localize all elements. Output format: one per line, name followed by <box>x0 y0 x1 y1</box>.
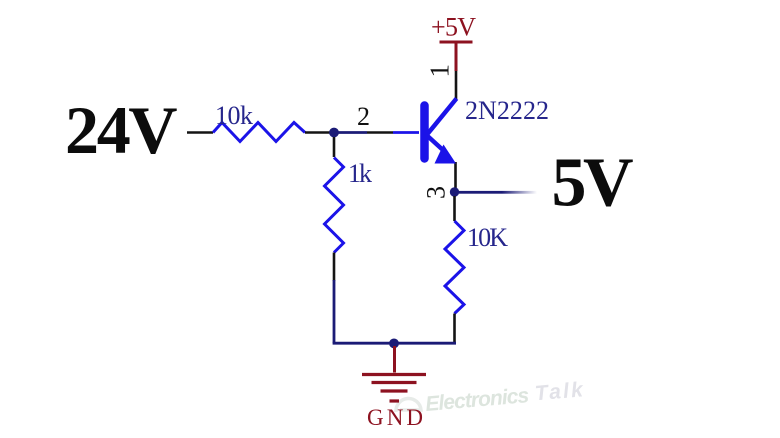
wire base segment (black) <box>367 131 393 134</box>
svg-text:Electronics: Electronics <box>424 384 530 416</box>
svg-text:Talk: Talk <box>534 378 585 405</box>
wire R1 right pin to node 2 <box>305 131 331 134</box>
wire left vertical to bottom rail <box>333 280 336 343</box>
pin Q1 base stub <box>393 131 419 134</box>
watermark ElectronicsTalk logo <box>396 398 421 412</box>
ground bar 2 <box>372 381 417 384</box>
svg-text:GND: GND <box>367 405 423 430</box>
wire bottom rail <box>333 342 456 345</box>
svg-text:24V: 24V <box>65 92 178 168</box>
transistor Q1 base bar <box>420 106 429 159</box>
wire emitter to node 3 <box>454 162 457 190</box>
svg-text:1k: 1k <box>348 159 372 188</box>
svg-text:5V: 5V <box>552 145 634 222</box>
transistor Q1 collector diagonal <box>428 99 457 135</box>
wire node 3 to R3 top pin <box>453 196 456 221</box>
svg-text:2N2222: 2N2222 <box>465 96 549 125</box>
ground stem <box>393 346 396 373</box>
resistor R1 10k <box>213 123 305 142</box>
wire R2 bottom pin <box>333 253 336 282</box>
wire node 2 to R2 top pin <box>333 137 336 157</box>
wire collector to +5V <box>455 71 458 101</box>
svg-text:10k: 10k <box>215 101 253 130</box>
ground bar 3 <box>381 389 408 392</box>
svg-text:2: 2 <box>357 102 370 131</box>
transistor Q1 emitter diagonal <box>427 136 444 152</box>
watermark ElectronicsTalk text <box>424 378 585 416</box>
junction node 3 <box>450 187 459 196</box>
junction node 2 <box>329 128 339 138</box>
resistor R2 1k <box>325 158 344 253</box>
wire node 2 to base segment (navy) <box>334 131 367 134</box>
ground bar 4 <box>390 399 400 402</box>
junction node GND <box>389 339 399 349</box>
wire R3 bottom pin <box>453 314 456 343</box>
wire node 3 to 5V output (fading) <box>459 191 537 194</box>
resistor R3 10K <box>445 221 464 314</box>
svg-text:10K: 10K <box>467 223 508 252</box>
power +5V stem <box>455 42 458 71</box>
transistor Q1 emitter arrow <box>435 145 457 164</box>
svg-text:+5V: +5V <box>431 13 476 42</box>
svg-text:1: 1 <box>425 64 455 78</box>
power +5V bar <box>440 41 473 44</box>
svg-text:3: 3 <box>421 186 450 199</box>
wire 24V to R1 left pin <box>187 131 213 134</box>
ground bar 1 <box>362 373 426 376</box>
